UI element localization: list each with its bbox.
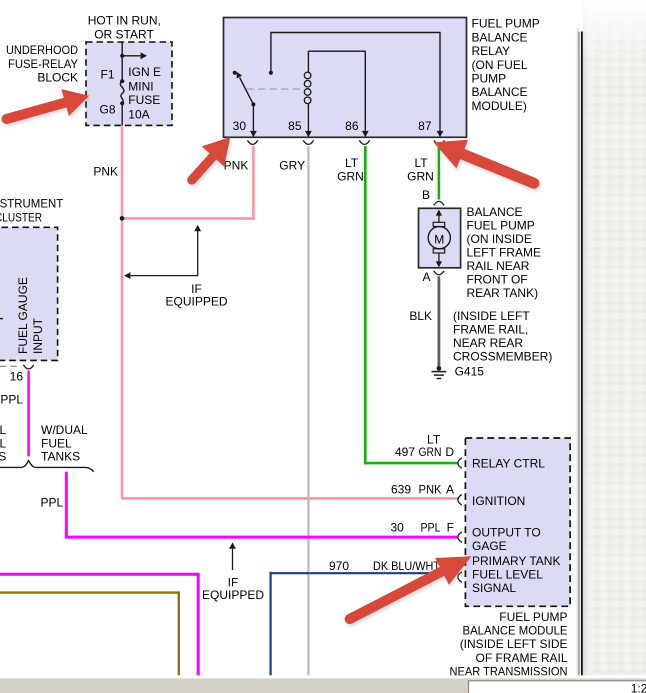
status bar separator	[0, 675, 646, 678]
label IF EQUIPPED (lower)	[202, 576, 264, 603]
svg-text:PNK: PNK	[93, 165, 118, 179]
svg-text:CLUSTER: CLUSTER	[0, 210, 42, 224]
svg-text:PPL: PPL	[0, 393, 23, 407]
underhood fuse-relay block box	[86, 42, 172, 125]
svg-text:PRIMARY TANK: PRIMARY TANK	[472, 554, 560, 568]
textured desktop background	[583, 0, 646, 693]
connector at module pin D	[458, 458, 462, 468]
label IGN E MINI FUSE 10A	[128, 65, 161, 121]
svg-text:NEAR REAR: NEAR REAR	[453, 336, 523, 350]
svg-text:B: B	[422, 188, 430, 202]
svg-text:LT: LT	[345, 156, 359, 170]
svg-text:INSTRUMENT: INSTRUMENT	[0, 196, 64, 210]
svg-text:FRONT OF: FRONT OF	[467, 272, 528, 286]
ground G415	[432, 366, 447, 379]
connector at module pin E	[458, 572, 462, 582]
svg-text:EQUIPPED: EQUIPPED	[165, 295, 227, 309]
svg-text:GRN: GRN	[407, 170, 434, 184]
label UNDERHOOD FUSE-RELAY BLOCK	[6, 43, 78, 84]
svg-text:30: 30	[233, 119, 247, 133]
svg-text:BALANCE: BALANCE	[472, 30, 528, 44]
if-equipped callout (PNK junction)	[124, 225, 201, 279]
if-equipped callout (lower)	[229, 542, 236, 570]
svg-text:FUEL PUMP: FUEL PUMP	[472, 17, 540, 31]
svg-text:D: D	[445, 445, 454, 459]
svg-text:10A: 10A	[128, 107, 149, 121]
svg-text:30: 30	[391, 520, 405, 534]
svg-text:GRN: GRN	[419, 445, 442, 459]
label 497 LT GRN D	[395, 432, 454, 459]
inner gauge box edge (cut off)	[0, 365, 21, 367]
wire DK BLU/WHT (circuit 970)	[270, 572, 459, 678]
connector at pump pin A	[434, 271, 444, 275]
label IF EQUIPPED (upper)	[165, 282, 227, 309]
wire PPL lower branch	[0, 573, 198, 678]
svg-text:87: 87	[418, 119, 432, 133]
svg-text:IGN E: IGN E	[128, 65, 161, 79]
connector at relay pin 30	[247, 140, 257, 144]
connector at relay pin 87	[434, 140, 444, 144]
label LT GRN (pin 87)	[407, 156, 434, 183]
svg-text:639: 639	[391, 483, 411, 497]
label 30 PPL F	[391, 520, 454, 534]
label INSTRUMENT CLUSTER	[0, 196, 64, 224]
wire PPL from cluster pin 16	[27, 371, 30, 457]
label LT GRN (pin 86)	[337, 156, 364, 183]
relay switch arm	[237, 72, 256, 107]
status field	[469, 681, 646, 693]
svg-text:SIGNAL: SIGNAL	[472, 581, 516, 595]
relay pin 30 internal lead	[250, 104, 257, 137]
svg-text:970: 970	[329, 559, 349, 573]
svg-text:PPL: PPL	[421, 520, 441, 534]
label 639 PNK A	[391, 483, 454, 497]
svg-text:OR START: OR START	[94, 27, 154, 41]
label OUTPUT TO GAGE	[472, 525, 541, 553]
fuse feed wire	[121, 42, 123, 81]
cut-off pin mark	[0, 318, 3, 320]
svg-text:UNDERHOOD: UNDERHOOD	[6, 43, 78, 57]
svg-text:(INSIDE LEFT: (INSIDE LEFT	[453, 309, 530, 323]
svg-text:16: 16	[10, 370, 24, 384]
svg-text:FUSE: FUSE	[128, 93, 160, 107]
relay label	[472, 17, 540, 113]
svg-text:FUEL: FUEL	[0, 436, 7, 450]
connector at relay pin 85	[303, 140, 313, 144]
svg-text:M: M	[434, 232, 444, 246]
wire BRN lower branch	[0, 591, 179, 678]
label W/DUAL FUEL TANKS (left, cut off)	[0, 423, 7, 463]
svg-text:A: A	[422, 270, 430, 284]
svg-text:GRY: GRY	[279, 159, 305, 173]
svg-text:CROSSMEMBER): CROSSMEMBER)	[453, 350, 552, 364]
relay pin 87 internal lead	[271, 33, 444, 138]
svg-text:(ON INSIDE: (ON INSIDE	[467, 232, 532, 246]
svg-text:85: 85	[288, 119, 302, 133]
svg-text:HOT IN RUN,: HOT IN RUN,	[88, 13, 161, 27]
connector at relay pin 86	[359, 140, 369, 144]
svg-text:TANKS: TANKS	[0, 449, 6, 463]
node: PNK junction	[120, 216, 125, 221]
svg-text:RELAY CTRL: RELAY CTRL	[472, 457, 545, 471]
fuse F1/G8 element	[120, 79, 124, 125]
label W/DUAL FUEL TANKS	[41, 423, 88, 463]
label 970 DK BLU/WHT	[329, 559, 441, 573]
svg-text:PUMP: PUMP	[472, 72, 507, 86]
label HOT IN RUN, OR START	[88, 13, 161, 41]
svg-text:PNK: PNK	[419, 483, 442, 497]
svg-text:86: 86	[345, 119, 359, 133]
svg-text:FUEL LEVEL: FUEL LEVEL	[472, 567, 543, 581]
svg-text:RELAY: RELAY	[472, 44, 510, 58]
svg-text:F1: F1	[100, 67, 114, 81]
svg-text:W/DUAL: W/DUAL	[41, 423, 88, 437]
svg-text:BLOCK: BLOCK	[37, 70, 78, 84]
connector at pump pin B	[434, 201, 444, 205]
svg-text:LT: LT	[414, 156, 428, 170]
svg-text:A: A	[446, 483, 454, 497]
pump motor M1 symbol	[428, 210, 450, 268]
red callout arrow (fuse block)	[4, 85, 94, 135]
svg-text:RAIL NEAR: RAIL NEAR	[467, 259, 530, 273]
wire LT GRN from relay pin 87 to pump B	[438, 146, 441, 200]
page edge shadow	[575, 28, 579, 678]
svg-text:BALANCE: BALANCE	[472, 85, 528, 99]
svg-text:IGNITION: IGNITION	[472, 494, 525, 508]
connector at module pin F	[458, 532, 462, 542]
svg-text:(INSIDE LEFT SIDE: (INSIDE LEFT SIDE	[460, 637, 568, 651]
svg-text:FUEL GAUGE: FUEL GAUGE	[16, 277, 30, 354]
connector at module pin A	[458, 495, 462, 505]
connector at cluster pin 16	[23, 365, 33, 369]
svg-text:PNK: PNK	[224, 159, 249, 173]
svg-text:(ON FUEL: (ON FUEL	[472, 58, 528, 72]
branch arrow inside fuse block	[122, 52, 147, 59]
svg-text:OF FRAME RAIL: OF FRAME RAIL	[475, 651, 567, 665]
svg-text:INPUT: INPUT	[31, 317, 45, 354]
svg-text:MINI: MINI	[128, 79, 153, 93]
relay armature dashed link	[247, 88, 305, 90]
relay switch contact node	[233, 71, 237, 75]
svg-text:FUEL: FUEL	[41, 436, 72, 450]
svg-text:W/DUAL: W/DUAL	[0, 423, 7, 437]
svg-text:G8: G8	[99, 102, 115, 116]
svg-text:GAGE: GAGE	[472, 539, 507, 553]
label (INSIDE LEFT FRAME RAIL, NEAR REAR CROSSMEMBER)	[453, 309, 552, 364]
svg-text:497: 497	[395, 445, 415, 459]
wire BLK from pump A to ground	[437, 276, 440, 366]
top fade over texture	[574, 0, 646, 60]
red callout arrow (relay pin 87)	[429, 131, 541, 201]
svg-text:REAR TANK): REAR TANK)	[467, 286, 539, 300]
red callout arrow (module output)	[344, 546, 479, 635]
svg-text:FUSE-RELAY: FUSE-RELAY	[8, 57, 78, 71]
relay pin 85 internal lead	[305, 103, 312, 137]
fuel pump balance module box	[465, 438, 570, 606]
svg-text:EQUIPPED: EQUIPPED	[202, 588, 264, 602]
node: fuse feed junction	[120, 54, 124, 58]
relay coil	[304, 51, 311, 103]
red callout arrow (relay pin 30)	[182, 130, 243, 193]
svg-text:BALANCE MODULE: BALANCE MODULE	[463, 623, 568, 637]
svg-text:F: F	[447, 520, 454, 534]
wire PNK from fuse to junction to relay pin 30	[121, 125, 254, 498]
svg-text:BALANCE: BALANCE	[467, 205, 523, 219]
status bar	[0, 678, 646, 693]
page edge line 2	[581, 32, 583, 679]
svg-text:FUEL PUMP: FUEL PUMP	[499, 610, 567, 624]
svg-text:LEFT FRAME: LEFT FRAME	[467, 245, 541, 259]
label FUEL GAUGE INPUT (rotated)	[16, 277, 45, 354]
relay common contact node	[269, 71, 273, 75]
fuel pump balance relay U-box	[224, 18, 467, 138]
instrument cluster box	[0, 227, 58, 360]
module caption	[450, 610, 568, 679]
wire LT GRN from relay pin 86 to module RELAY CTRL	[364, 146, 458, 464]
svg-text:DK BLU/WHT: DK BLU/WHT	[373, 559, 441, 573]
wire GRY from relay pin 85	[307, 146, 309, 678]
svg-text:TANKS: TANKS	[41, 449, 80, 463]
svg-text:MODULE): MODULE)	[472, 99, 527, 113]
svg-text:BLK: BLK	[409, 309, 432, 323]
svg-text:OUTPUT TO: OUTPUT TO	[472, 525, 541, 539]
svg-text:G415: G415	[455, 365, 485, 379]
svg-text:PPL: PPL	[41, 496, 64, 510]
balance fuel pump box	[419, 208, 461, 267]
wire PPL to module OUTPUT TO GAGE	[65, 472, 458, 537]
svg-text:GRN: GRN	[337, 170, 364, 184]
svg-text:FUEL PUMP: FUEL PUMP	[467, 218, 535, 232]
relay pin 86 internal lead	[308, 51, 368, 137]
page edge line 1	[578, 32, 579, 679]
wire PNK (circuit 639) to module IGNITION	[122, 497, 458, 500]
label PRIMARY TANK FUEL LEVEL SIGNAL	[472, 554, 560, 595]
alternate-wiring brace	[0, 461, 94, 472]
svg-text:FRAME RAIL,: FRAME RAIL,	[453, 323, 528, 337]
pump label	[467, 205, 541, 300]
svg-text:1:2: 1:2	[631, 682, 646, 693]
